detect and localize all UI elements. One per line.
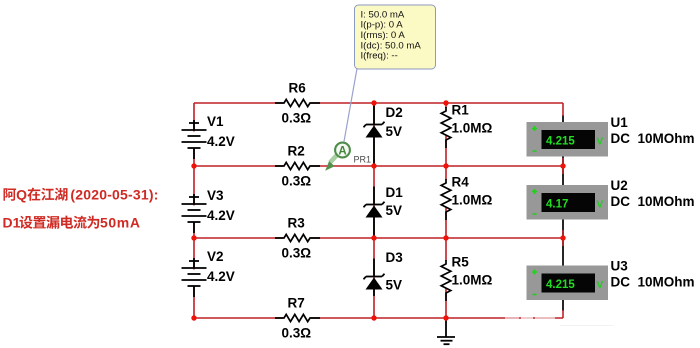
junction dot node row2/meters xyxy=(560,163,565,168)
svg-text:4.215: 4.215 xyxy=(546,279,575,291)
svg-text:D2: D2 xyxy=(386,105,403,120)
red annotation line 2: D1 leakage current set to 50mA xyxy=(3,215,141,231)
svg-text:Q: Q xyxy=(16,187,27,203)
resistor R7 xyxy=(283,313,311,323)
svg-text:D3: D3 xyxy=(386,250,404,265)
multimeter U1 xyxy=(527,122,609,157)
probe leader line xyxy=(344,69,357,142)
svg-text:4.17: 4.17 xyxy=(546,199,568,211)
svg-text:R2: R2 xyxy=(288,144,305,159)
svg-text:D1: D1 xyxy=(3,215,21,231)
svg-text:4.2V: 4.2V xyxy=(207,269,235,284)
junction dot node row1/D2 xyxy=(371,100,376,105)
wire row2 horizontal net xyxy=(194,165,563,167)
junction dot node row3/D-column xyxy=(371,235,376,240)
resistor R3 xyxy=(283,233,311,243)
svg-text:0.3Ω: 0.3Ω xyxy=(282,174,312,189)
svg-text:1.0MΩ: 1.0MΩ xyxy=(452,121,493,136)
wire row1 top horizontal net xyxy=(194,102,563,104)
resistor R1 xyxy=(440,108,452,135)
junction dot node row3/meters xyxy=(560,235,565,240)
svg-text:A: A xyxy=(338,145,346,157)
junction dot node row1/R1 xyxy=(443,100,448,105)
junction dot node row2/bus xyxy=(191,163,196,168)
svg-text:(2020-05-31):: (2020-05-31): xyxy=(70,187,158,203)
svg-text:0.3Ω: 0.3Ω xyxy=(282,111,312,126)
resistor R4 xyxy=(440,180,452,207)
junction dot node row3/R-column xyxy=(443,235,448,240)
svg-text:I: 50.0 mA: I: 50.0 mA xyxy=(361,9,405,20)
junction dot node row4/D3 xyxy=(371,315,376,320)
multimeter U2 xyxy=(527,185,609,220)
svg-text:V2: V2 xyxy=(207,249,224,264)
wire meter column red segments xyxy=(562,103,564,318)
wire left vertical bus xyxy=(193,103,195,318)
wire row3 horizontal net xyxy=(194,237,563,239)
svg-text:V: V xyxy=(597,200,604,211)
svg-text:DC 10MOhm: DC 10MOhm xyxy=(611,131,695,146)
svg-text:DC 10MOhm: DC 10MOhm xyxy=(611,194,695,209)
svg-text:PR1: PR1 xyxy=(354,154,372,164)
zener diode D1 xyxy=(364,187,385,236)
svg-text:50mA: 50mA xyxy=(100,215,141,231)
svg-text:R6: R6 xyxy=(289,81,307,96)
wire row4 bottom horizontal net xyxy=(194,317,563,319)
junction dot node row4/ground xyxy=(443,315,448,320)
svg-text:1.0MΩ: 1.0MΩ xyxy=(452,273,493,288)
svg-text:0.3Ω: 0.3Ω xyxy=(282,326,312,341)
svg-text:5V: 5V xyxy=(386,278,403,293)
battery V3 xyxy=(192,206,196,222)
svg-text:R1: R1 xyxy=(452,103,470,118)
red annotation line 1: A Q zai jianghu (2020-05-31): xyxy=(3,187,158,203)
svg-text:I(freq): --: I(freq): -- xyxy=(361,51,398,62)
svg-text:D1: D1 xyxy=(386,185,404,200)
probe tooltip readout box xyxy=(355,5,436,69)
svg-text:____: ____ xyxy=(559,302,614,329)
zener diode D3 xyxy=(364,259,385,297)
svg-text:V1: V1 xyxy=(207,114,224,129)
junction dot node row3/bus xyxy=(191,235,196,240)
svg-text:I(rms): 0 A: I(rms): 0 A xyxy=(361,30,406,41)
svg-text:4.215: 4.215 xyxy=(546,136,575,148)
junction dot node row2/R-column xyxy=(443,163,448,168)
svg-text:4.2V: 4.2V xyxy=(207,208,235,223)
svg-text:R5: R5 xyxy=(452,255,470,270)
svg-text:U1: U1 xyxy=(611,115,629,130)
junction dot node row2/D-column xyxy=(371,163,376,168)
svg-text:R4: R4 xyxy=(452,175,470,190)
resistor R5 xyxy=(440,261,452,288)
svg-text:DC 10MOhm: DC 10MOhm xyxy=(611,275,695,290)
svg-text:5V: 5V xyxy=(386,124,403,139)
svg-text:5V: 5V xyxy=(386,203,403,218)
current probe PR1 xyxy=(325,143,371,171)
svg-text:U3: U3 xyxy=(611,259,629,274)
svg-text:V: V xyxy=(597,137,604,148)
resistor R2 xyxy=(283,161,311,171)
svg-text:4.2V: 4.2V xyxy=(207,134,235,149)
wire diode column vertical xyxy=(373,103,375,318)
svg-text:V3: V3 xyxy=(207,188,224,203)
wire resistor column vertical xyxy=(445,103,447,318)
svg-text:R3: R3 xyxy=(288,216,306,231)
multimeter U3 xyxy=(527,266,609,301)
svg-text:1.0MΩ: 1.0MΩ xyxy=(452,193,493,208)
wire meter column black lead segments xyxy=(562,115,564,311)
faint watermark ghost over bottom wire xyxy=(505,302,614,329)
svg-text:R7: R7 xyxy=(288,296,305,311)
battery V2 xyxy=(192,270,196,286)
svg-text:0.3Ω: 0.3Ω xyxy=(282,246,312,261)
resistor R6 xyxy=(283,98,311,108)
svg-text:V: V xyxy=(597,280,604,291)
battery V1 xyxy=(192,132,196,148)
zener diode D2 xyxy=(364,104,385,164)
junction dot node row4/bus xyxy=(191,315,196,320)
svg-text:U2: U2 xyxy=(611,178,628,193)
ground xyxy=(437,320,455,344)
